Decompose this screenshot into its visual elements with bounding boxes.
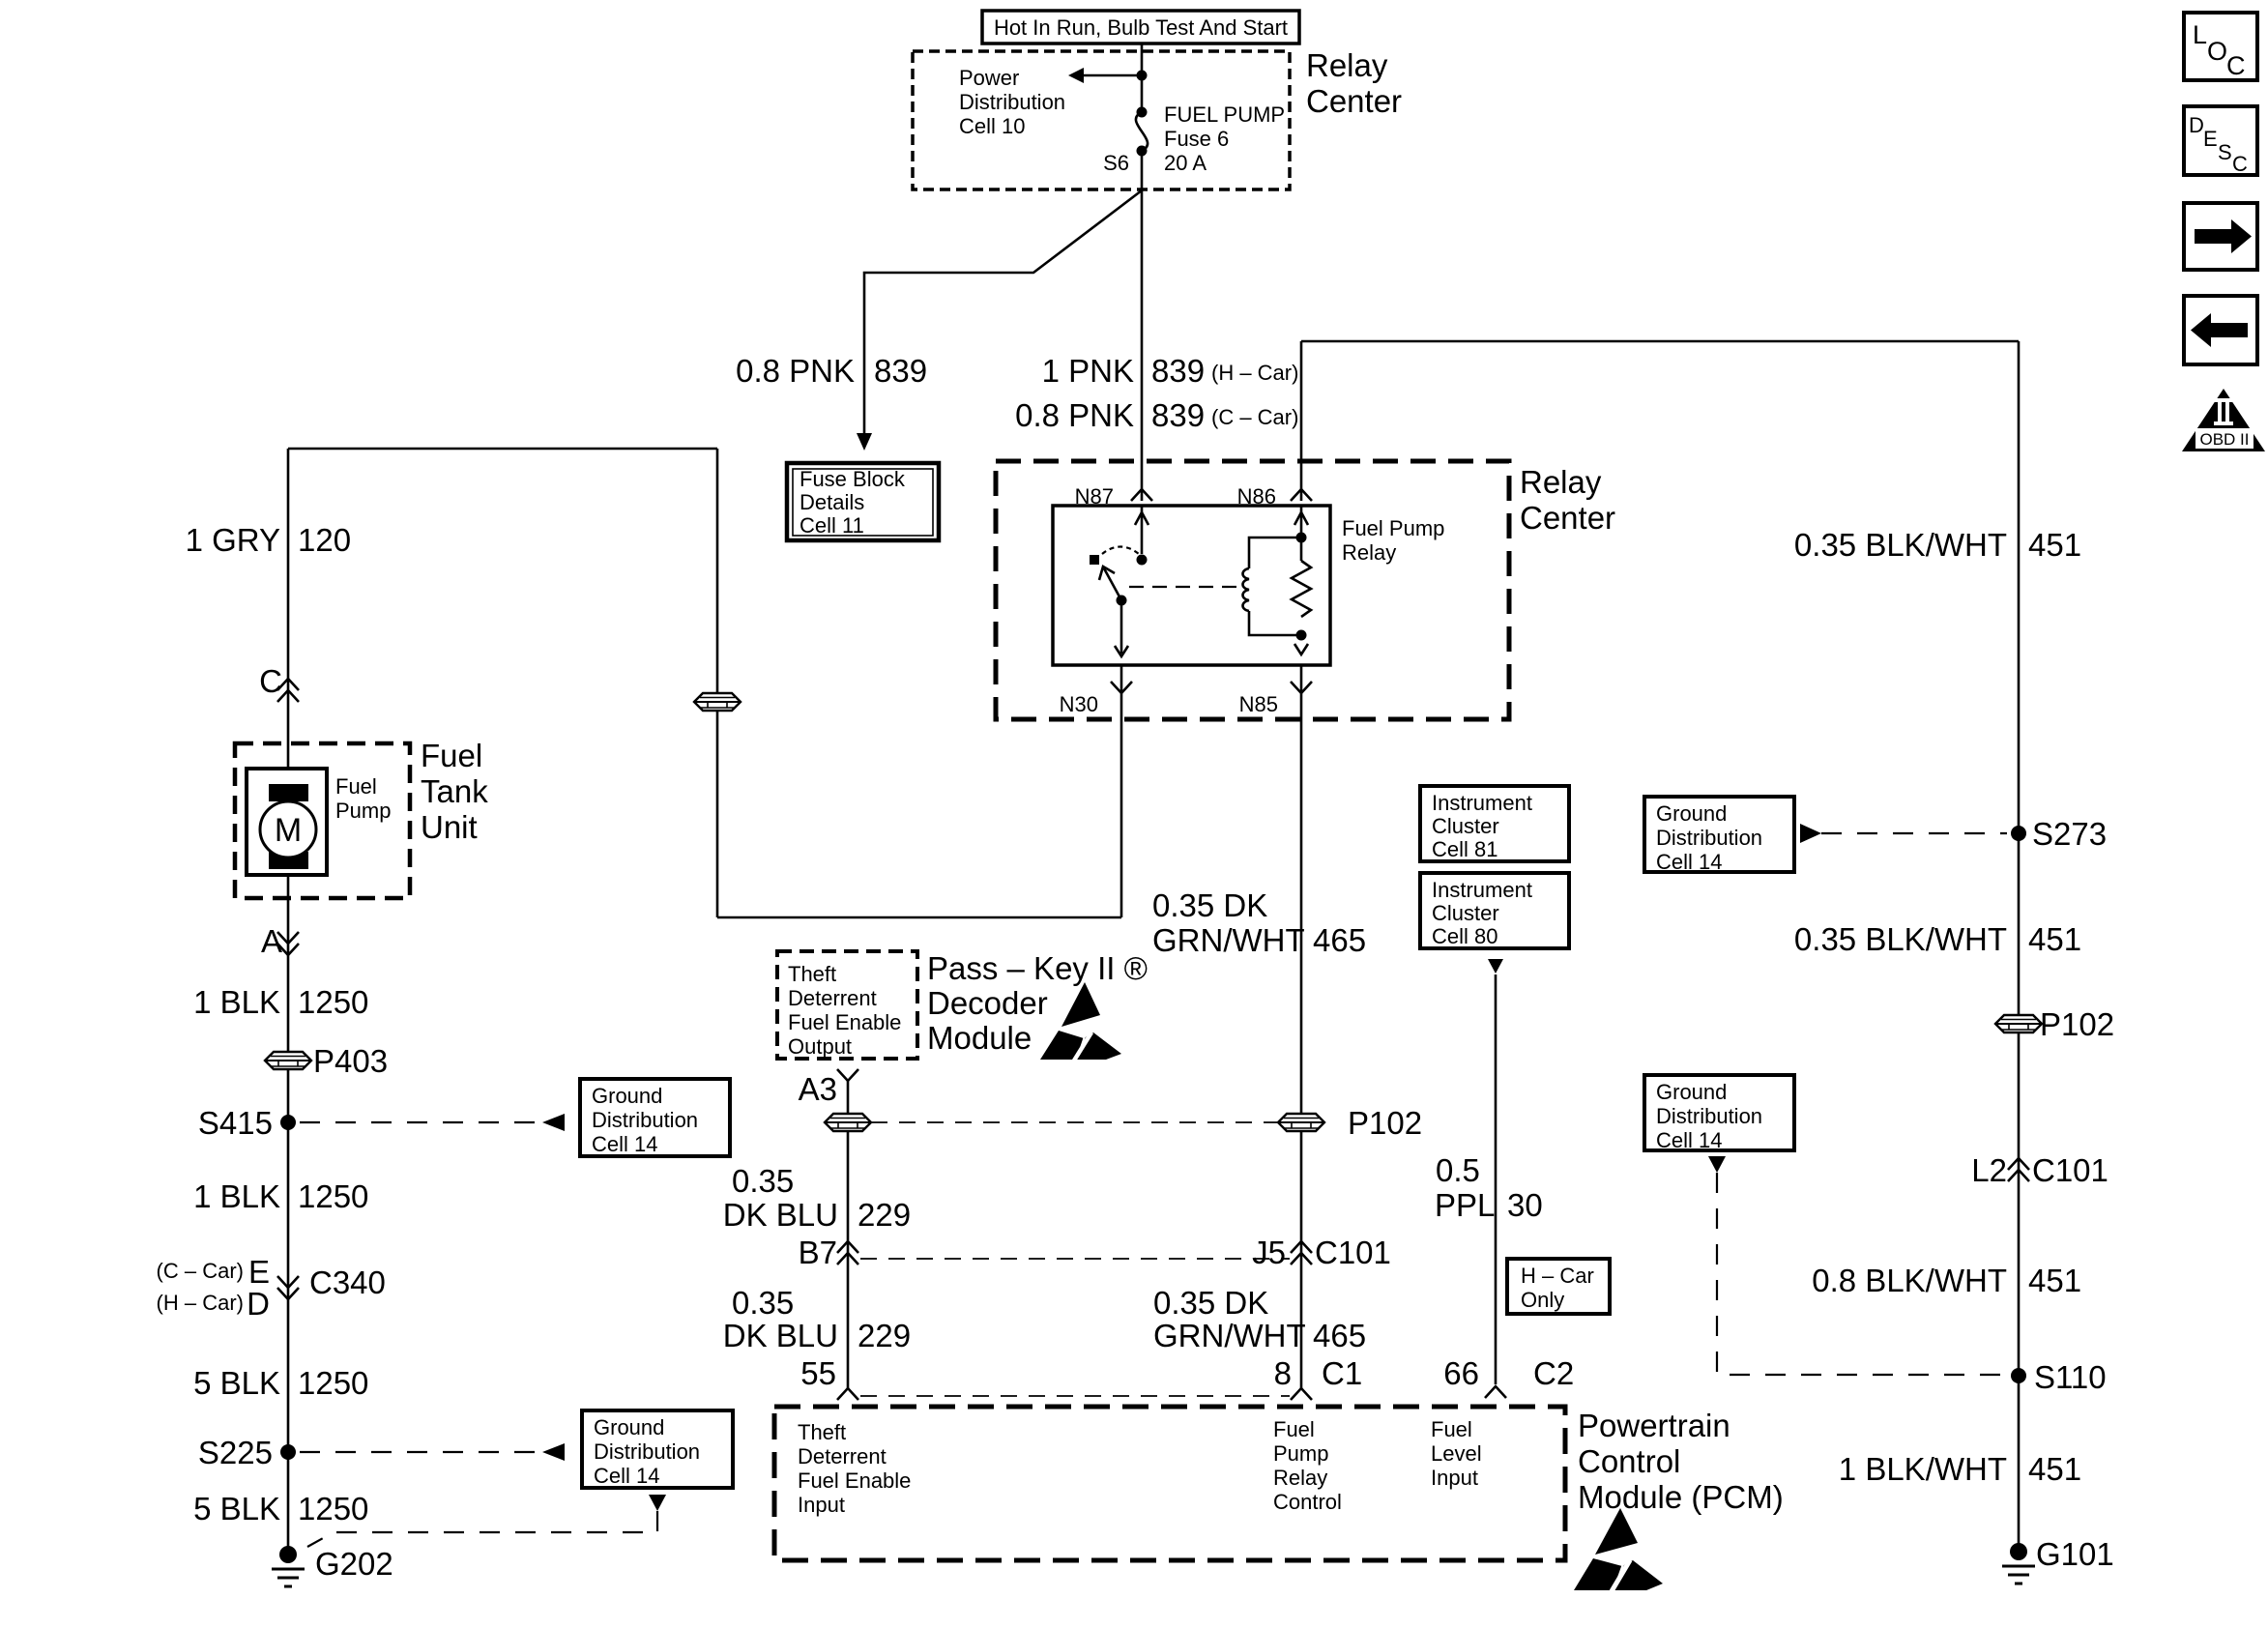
svg-text:0.35: 0.35: [732, 1285, 794, 1321]
svg-text:Deterrent: Deterrent: [788, 986, 877, 1010]
svg-text:Cell 81: Cell 81: [1432, 837, 1497, 861]
svg-text:Distribution: Distribution: [592, 1108, 698, 1132]
svg-text:D: D: [2189, 113, 2204, 137]
svg-text:(H – Car): (H – Car): [1211, 361, 1298, 385]
svg-text:C2: C2: [1533, 1355, 1574, 1391]
svg-text:Theft: Theft: [798, 1420, 846, 1444]
svg-text:Ground: Ground: [592, 1084, 662, 1108]
svg-text:Ground: Ground: [1656, 1080, 1727, 1104]
svg-text:465: 465: [1313, 922, 1366, 958]
svg-text:N86: N86: [1237, 484, 1276, 509]
svg-text:C: C: [2232, 152, 2248, 176]
svg-text:N30: N30: [1060, 692, 1098, 716]
svg-text:Cell 14: Cell 14: [594, 1464, 659, 1488]
svg-text:C: C: [259, 663, 282, 699]
svg-text:Cell 14: Cell 14: [1656, 850, 1722, 874]
svg-text:Instrument: Instrument: [1432, 878, 1532, 902]
svg-text:0.35 BLK/WHT: 0.35 BLK/WHT: [1794, 527, 2007, 563]
svg-text:839: 839: [874, 353, 927, 389]
svg-text:E: E: [2203, 127, 2218, 151]
svg-text:5 BLK: 5 BLK: [193, 1491, 280, 1526]
svg-text:(H – Car): (H – Car): [157, 1291, 244, 1315]
svg-text:Pump: Pump: [335, 799, 391, 823]
svg-text:D: D: [247, 1286, 270, 1322]
svg-text:A: A: [261, 923, 282, 959]
svg-text:Cell 10: Cell 10: [959, 114, 1025, 138]
svg-text:Pump: Pump: [1273, 1441, 1328, 1466]
svg-text:Instrument: Instrument: [1432, 791, 1532, 815]
svg-text:Cell 11: Cell 11: [800, 513, 864, 538]
svg-text:0.35 DK: 0.35 DK: [1153, 1285, 1268, 1321]
svg-text:S110: S110: [2034, 1359, 2107, 1395]
svg-text:465: 465: [1313, 1318, 1366, 1353]
svg-text:OBD II: OBD II: [2199, 430, 2249, 449]
svg-text:DK BLU: DK BLU: [723, 1318, 838, 1353]
svg-text:5 BLK: 5 BLK: [193, 1365, 280, 1401]
svg-text:0.8 PNK: 0.8 PNK: [1015, 397, 1134, 433]
svg-text:0.8 PNK: 0.8 PNK: [736, 353, 855, 389]
svg-text:E: E: [248, 1254, 270, 1290]
svg-text:0.35 DK: 0.35 DK: [1152, 887, 1267, 923]
svg-text:Module (PCM): Module (PCM): [1578, 1479, 1784, 1515]
svg-text:C101: C101: [2032, 1152, 2108, 1188]
svg-text:451: 451: [2028, 1263, 2081, 1298]
svg-text:55: 55: [800, 1355, 836, 1391]
svg-text:Fuse Block: Fuse Block: [800, 467, 906, 491]
svg-text:FUEL PUMP: FUEL PUMP: [1164, 102, 1285, 127]
svg-text:451: 451: [2028, 1451, 2081, 1487]
svg-text:C: C: [2226, 51, 2246, 80]
svg-text:Level: Level: [1431, 1441, 1482, 1466]
svg-text:1 BLK/WHT: 1 BLK/WHT: [1839, 1451, 2007, 1487]
svg-text:S273: S273: [2032, 816, 2107, 852]
svg-text:Ground: Ground: [594, 1415, 664, 1439]
svg-text:Control: Control: [1273, 1490, 1342, 1514]
svg-text:S225: S225: [198, 1435, 273, 1470]
svg-text:Fuse 6: Fuse 6: [1164, 127, 1229, 151]
svg-text:Relay: Relay: [1520, 464, 1602, 500]
svg-text:0.5: 0.5: [1436, 1152, 1480, 1188]
svg-text:Power: Power: [959, 66, 1019, 90]
svg-text:P102: P102: [1348, 1105, 1422, 1141]
svg-text:G202: G202: [315, 1546, 393, 1582]
svg-text:229: 229: [858, 1318, 911, 1353]
svg-text:Cell 14: Cell 14: [1656, 1128, 1722, 1152]
svg-text:839: 839: [1151, 397, 1205, 433]
svg-text:S6: S6: [1103, 151, 1129, 175]
svg-text:Ground: Ground: [1656, 801, 1727, 826]
svg-text:(C – Car): (C – Car): [157, 1259, 244, 1283]
svg-text:L2: L2: [1971, 1152, 2007, 1188]
svg-text:GRN/WHT: GRN/WHT: [1153, 1318, 1306, 1353]
svg-text:H – Car: H – Car: [1521, 1264, 1594, 1288]
svg-text:30: 30: [1507, 1187, 1543, 1223]
svg-text:Cell 80: Cell 80: [1432, 924, 1497, 948]
svg-text:Fuel: Fuel: [421, 738, 482, 773]
svg-text:GRN/WHT: GRN/WHT: [1152, 922, 1305, 958]
svg-text:C340: C340: [309, 1265, 386, 1300]
svg-text:1 BLK: 1 BLK: [193, 1178, 280, 1214]
svg-text:Fuel Enable: Fuel Enable: [798, 1468, 911, 1493]
svg-text:Decoder: Decoder: [927, 985, 1048, 1021]
svg-text:Distribution: Distribution: [594, 1439, 700, 1464]
svg-text:1 PNK: 1 PNK: [1042, 353, 1134, 389]
svg-text:J5: J5: [1252, 1235, 1286, 1270]
svg-text:66: 66: [1443, 1355, 1479, 1391]
svg-text:C1: C1: [1322, 1355, 1362, 1391]
svg-text:Input: Input: [1431, 1466, 1478, 1490]
svg-text:Pass – Key II ®: Pass – Key II ®: [927, 950, 1148, 986]
svg-text:Cluster: Cluster: [1432, 901, 1499, 925]
svg-text:451: 451: [2028, 921, 2081, 957]
svg-text:C101: C101: [1315, 1235, 1391, 1270]
svg-text:(C – Car): (C – Car): [1211, 405, 1298, 429]
svg-text:N87: N87: [1075, 484, 1114, 509]
svg-text:Relay: Relay: [1273, 1466, 1327, 1490]
svg-text:N85: N85: [1239, 692, 1278, 716]
svg-text:Deterrent: Deterrent: [798, 1444, 887, 1468]
svg-text:Powertrain: Powertrain: [1578, 1408, 1730, 1443]
svg-text:1250: 1250: [298, 1491, 368, 1526]
svg-text:Unit: Unit: [421, 809, 478, 845]
svg-text:1 GRY: 1 GRY: [186, 522, 280, 558]
svg-text:Cell 14: Cell 14: [592, 1132, 657, 1156]
svg-text:Theft: Theft: [788, 962, 836, 986]
svg-text:Relay: Relay: [1342, 540, 1396, 565]
svg-text:Cluster: Cluster: [1432, 814, 1499, 838]
svg-text:1 BLK: 1 BLK: [193, 984, 280, 1020]
svg-text:229: 229: [858, 1197, 911, 1233]
svg-text:S: S: [2218, 140, 2232, 164]
svg-text:P403: P403: [313, 1043, 388, 1079]
svg-text:Fuel: Fuel: [1431, 1417, 1472, 1441]
svg-text:1250: 1250: [298, 1365, 368, 1401]
svg-text:Distribution: Distribution: [1656, 1104, 1762, 1128]
svg-text:Input: Input: [798, 1493, 845, 1517]
svg-text:0.35: 0.35: [732, 1163, 794, 1199]
svg-text:1250: 1250: [298, 1178, 368, 1214]
svg-text:Only: Only: [1521, 1288, 1564, 1312]
svg-text:DK BLU: DK BLU: [723, 1197, 838, 1233]
svg-text:Distribution: Distribution: [959, 90, 1065, 114]
svg-text:20 A: 20 A: [1164, 151, 1207, 175]
svg-text:Center: Center: [1520, 500, 1615, 536]
svg-text:Relay: Relay: [1306, 47, 1388, 83]
svg-text:Tank: Tank: [421, 773, 488, 809]
svg-text:839: 839: [1151, 353, 1205, 389]
svg-text:Module: Module: [927, 1020, 1032, 1056]
svg-text:Fuel Enable: Fuel Enable: [788, 1010, 901, 1034]
svg-text:Control: Control: [1578, 1443, 1680, 1479]
svg-text:Hot In Run, Bulb Test And Star: Hot In Run, Bulb Test And Start: [994, 15, 1288, 40]
svg-text:451: 451: [2028, 527, 2081, 563]
svg-text:Details: Details: [800, 490, 864, 514]
svg-text:120: 120: [298, 522, 351, 558]
svg-text:G101: G101: [2036, 1536, 2114, 1572]
svg-text:O: O: [2207, 37, 2227, 66]
svg-text:M: M: [275, 812, 302, 849]
svg-text:PPL: PPL: [1435, 1187, 1495, 1223]
svg-text:L: L: [2193, 20, 2207, 49]
svg-text:Distribution: Distribution: [1656, 826, 1762, 850]
svg-text:0.35 BLK/WHT: 0.35 BLK/WHT: [1794, 921, 2007, 957]
svg-text:P102: P102: [2040, 1006, 2114, 1042]
svg-text:1250: 1250: [298, 984, 368, 1020]
svg-text:Fuel: Fuel: [1273, 1417, 1315, 1441]
svg-text:Fuel Pump: Fuel Pump: [1342, 516, 1444, 540]
svg-text:B7: B7: [799, 1235, 837, 1270]
svg-text:S415: S415: [198, 1105, 273, 1141]
svg-text:8: 8: [1274, 1355, 1292, 1391]
svg-text:Output: Output: [788, 1034, 852, 1059]
svg-text:A3: A3: [799, 1071, 837, 1107]
svg-text:0.8 BLK/WHT: 0.8 BLK/WHT: [1812, 1263, 2007, 1298]
svg-text:Center: Center: [1306, 83, 1402, 119]
svg-text:Fuel: Fuel: [335, 774, 377, 799]
